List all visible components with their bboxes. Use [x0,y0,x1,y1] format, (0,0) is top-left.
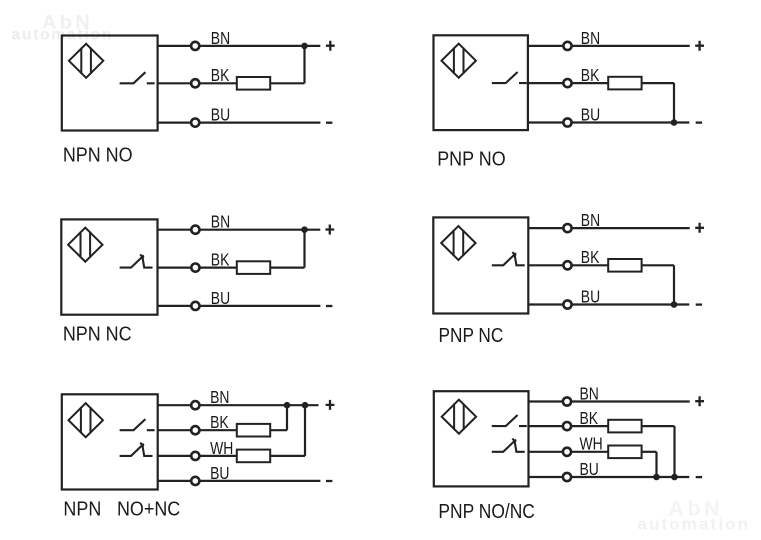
wire BU line [158,480,321,482]
wire BK to BU dropper [673,265,675,304]
wire BK to BN riser [303,230,305,268]
wire BK lead [158,82,237,84]
minus supply NPN NO+NC [326,480,332,482]
wire BK lead [529,425,609,427]
terminal BN terminal [191,42,199,50]
terminal BU terminal [563,473,571,481]
wire WH link [642,451,657,453]
svg-text:BU: BU [211,289,230,308]
resistor R8 [608,446,641,459]
sensor body box PNP NO/NC [434,391,529,486]
terminal BK terminal [191,79,199,87]
svg-text:NPN: NPN [63,499,101,521]
svg-text:BU: BU [211,106,230,125]
svg-text:BU: BU [580,461,599,480]
resistor R7 [608,420,641,433]
wire BK link [642,425,675,427]
svg-text:BN: BN [581,212,600,231]
svg-text:automation: automation [638,514,751,533]
wire BN line [158,45,321,47]
wire WH link [270,455,305,457]
terminal BK terminal [563,79,571,87]
junction BN/BK node [301,43,308,50]
svg-text:BK: BK [211,251,230,270]
sensor body box NPN NO [62,36,158,131]
switch S3 (NC contact) [120,254,153,267]
svg-text:NPN NC: NPN NC [63,323,132,345]
wire BN line [528,45,690,47]
terminal BK terminal [191,426,199,434]
sensor chord right [90,48,92,74]
wire BK lead [528,264,608,266]
wire BK to BU dropper [673,83,675,122]
svg-text:BK: BK [210,414,229,433]
terminal BN terminal [191,401,199,409]
sensor symbol (diamond) [69,403,103,437]
terminal BU terminal [191,477,199,485]
terminal BU terminal [563,118,571,126]
svg-text:NO+NC: NO+NC [117,499,180,521]
terminal WH terminal [563,448,571,456]
junction BK/BU node [671,301,678,308]
wire WH to BN riser [304,405,306,456]
wire BN line [528,227,689,229]
wire WH lead [158,455,237,457]
junction WH/BU node [653,474,660,481]
junction BK/BU node [671,119,678,126]
switch S5a (NO contact) [120,419,155,430]
svg-text:BK: BK [581,249,600,268]
sensor body box NPN NO+NC [62,394,158,489]
sensor symbol (diamond) [68,228,102,262]
wire BK link [642,82,674,84]
terminal BU terminal [191,119,199,127]
plus supply PNP NC [695,223,704,233]
svg-text:NPN NO: NPN NO [63,145,133,167]
wire BU line [529,476,690,478]
wire BN line [529,400,690,402]
switch S6b (NC contact) [492,439,525,452]
wire BK lead [528,82,608,84]
wire WH to BU dropper [655,452,657,477]
svg-text:BN: BN [211,213,230,232]
terminal BK terminal [563,261,571,269]
sensor body box NPN NC [61,219,157,314]
sensor symbol (diamond) [69,44,103,78]
wire BK link [270,429,287,431]
switch S1 (NO contact) [120,72,155,83]
plus supply PNP NO/NC [695,396,704,406]
wire BK link [270,82,304,84]
svg-text:BK: BK [580,410,599,429]
terminal BU terminal [191,302,199,310]
wire BK to BU dropper [673,426,675,477]
resistor R6 [237,450,270,463]
sensor symbol (diamond) [442,44,476,78]
switch S6a (NO contact) [492,415,527,426]
resistor R5 [237,424,270,437]
terminal BK terminal [563,422,571,430]
terminal BN terminal [563,224,571,232]
sensor chord left [80,232,82,258]
terminal BU terminal [563,300,571,308]
svg-text:BN: BN [581,29,600,48]
plus supply PNP NO [695,41,704,51]
wire BK link [642,264,674,266]
svg-text:WH: WH [580,435,603,454]
minus supply PNP NO/NC [696,476,702,478]
junction BK/BU node [671,474,678,481]
wire BU line [528,303,689,305]
plus supply NPN NC [325,225,334,235]
sensor chord left [80,407,82,433]
sensor chord right [89,232,91,258]
resistor R4 [608,259,641,272]
plus supply NPN NO [326,41,335,51]
svg-text:BN: BN [580,385,599,404]
resistor R3 [237,261,270,274]
svg-text:PNP NC: PNP NC [439,325,504,348]
wire WH lead [529,451,609,453]
sensor body box PNP NO [434,35,528,130]
sensor chord right [462,230,464,256]
terminal BN terminal [563,42,571,50]
wire BU line [158,305,321,307]
resistor R2 [608,77,641,90]
wire BK link [270,267,304,269]
terminal BN terminal [563,397,571,405]
svg-text:BK: BK [581,67,600,86]
switch S2 (NO contact) [492,72,527,83]
plus supply NPN NO+NC [326,400,335,410]
svg-text:BK: BK [211,67,230,86]
resistor R1 [237,77,270,90]
wire BK lead [158,267,237,269]
svg-text:BU: BU [581,106,600,125]
wire BU line [158,121,321,123]
switch S5b (NC contact) [120,443,153,456]
minus supply PNP NO [696,121,702,123]
minus supply NPN NC [326,305,332,307]
terminal BK terminal [191,264,199,272]
terminal BN terminal [191,226,199,234]
sensor body box PNP NC [433,217,528,313]
wire BN line [158,404,319,406]
sensor chord right [463,404,465,430]
svg-text:BN: BN [211,29,230,48]
sensor symbol (diamond) [442,400,476,434]
junction BN/BK node [301,226,308,233]
svg-text:BU: BU [581,288,600,307]
sensor chord right [463,48,465,74]
svg-text:BU: BU [210,464,229,483]
sensor chord left [80,48,82,74]
svg-text:PNP NO/NC: PNP NO/NC [438,501,535,524]
sensor chord left [453,48,455,74]
sensor chord left [453,404,455,430]
wire BK to BN riser [286,405,288,430]
svg-text:automation: automation [12,26,114,43]
svg-text:PNP NO: PNP NO [437,149,505,171]
junction BN/BK node [284,402,291,409]
minus supply NPN NO [326,122,332,124]
switch S4 (NC contact) [492,252,525,265]
minus supply PNP NC [696,303,702,305]
sensor chord left [453,230,455,256]
wire BK to BN riser [303,46,305,83]
svg-text:BN: BN [210,389,229,408]
svg-text:WH: WH [210,439,233,458]
wire BK lead [158,429,237,431]
wire BN line [158,229,321,231]
junction BN/WH node [302,402,309,409]
terminal WH terminal [191,452,199,460]
sensor symbol (diamond) [441,226,475,260]
sensor chord right [90,407,92,433]
wire BU line [528,121,689,123]
